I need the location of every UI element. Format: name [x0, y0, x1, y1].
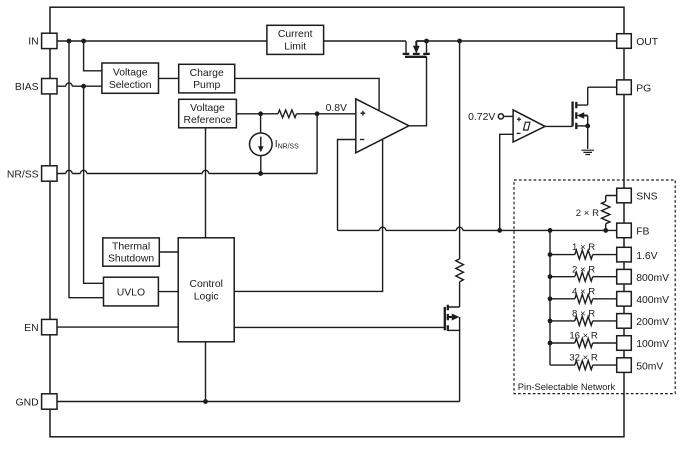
- wire 2xR to FB line: [605, 224, 607, 231]
- wire Voltage Reference output 0.8V node: [236, 113, 355, 115]
- svg-text:Reference: Reference: [184, 115, 232, 126]
- svg-text:FB: FB: [636, 227, 649, 238]
- pass transistor channel segments: [403, 53, 430, 55]
- svg-text:SNS: SNS: [636, 192, 657, 203]
- wire BIAS line with hop: [57, 83, 102, 86]
- svg-text:400mV: 400mV: [636, 295, 669, 306]
- junction on IN rail at x69: [67, 39, 72, 44]
- pin 200mV: [617, 314, 632, 329]
- pin 1.6V: [617, 247, 632, 262]
- junction on IN rail at x83.6: [81, 39, 86, 44]
- op-amp error amplifier: [356, 99, 409, 153]
- resistor 1xR ladder: [575, 250, 593, 259]
- block UVLO: [104, 277, 159, 306]
- svg-text:0.72V: 0.72V: [468, 112, 495, 123]
- resistor discharge path: [456, 259, 464, 282]
- label 0.8V: [326, 103, 347, 114]
- svg-text:8 × R: 8 × R: [572, 309, 595, 320]
- svg-text:2 × R: 2 × R: [572, 264, 595, 275]
- discharge transistor body arrow: [448, 314, 460, 321]
- junction FB comparator tap: [497, 228, 502, 233]
- wire ladder bus: [549, 230, 551, 365]
- wire SNS to 2xR resistor: [606, 196, 617, 202]
- block Charge Pump: [179, 64, 235, 93]
- label 2xR: [572, 264, 595, 275]
- wire ladder row 4 left: [550, 320, 575, 322]
- junction FB 2xR tap: [603, 228, 608, 233]
- resistor 2xR ladder: [575, 272, 593, 281]
- junction NR/SS at current source: [258, 171, 263, 176]
- junction 0.8V node right: [315, 111, 320, 116]
- svg-text:4 × R: 4 × R: [572, 286, 595, 297]
- svg-text:Current: Current: [278, 29, 313, 40]
- PG FET source stub: [576, 125, 587, 127]
- wire IN rail: [57, 40, 406, 42]
- wire EN line: [57, 326, 178, 328]
- wire Control Logic to error amp enable: [234, 140, 382, 291]
- dashed box pin-selectable network: [514, 180, 675, 394]
- svg-text:50mV: 50mV: [636, 361, 663, 372]
- current source I_NR/SS circle: [249, 133, 272, 156]
- svg-text:2 × R: 2 × R: [576, 208, 599, 219]
- resistor 2xR sense: [602, 201, 610, 223]
- svg-text:OUT: OUT: [636, 37, 659, 48]
- junction ladder bus row 4: [548, 319, 553, 324]
- label 800mV: [636, 273, 669, 284]
- svg-text:EN: EN: [24, 323, 38, 334]
- pin 400mV: [617, 292, 632, 307]
- svg-text:Shutdown: Shutdown: [108, 254, 154, 265]
- label 1xR: [572, 242, 595, 253]
- svg-text:Pin-Selectable Network: Pin-Selectable Network: [518, 381, 616, 392]
- label FB: [636, 227, 649, 238]
- pin GND: [42, 394, 57, 409]
- block Thermal Shutdown: [103, 238, 160, 266]
- ground symbol: [581, 150, 594, 154]
- pin PG: [617, 80, 632, 95]
- wire Control Logic to GND rail: [205, 342, 207, 402]
- junction FB ladder bus tap: [548, 228, 553, 233]
- wire OUT sense down to resistor: [459, 41, 461, 259]
- svg-text:Logic: Logic: [194, 291, 219, 302]
- resistor 8xR ladder: [575, 316, 593, 325]
- junction PG FET source: [585, 124, 590, 129]
- label 2 x R: [576, 208, 599, 219]
- svg-text:800mV: 800mV: [636, 273, 669, 284]
- wire OUT rail: [416, 40, 617, 42]
- junction OUT sense tap: [457, 39, 462, 44]
- junction pass FET drain on OUT rail: [424, 39, 429, 44]
- resistor 16xR ladder: [575, 339, 593, 348]
- resistor 4xR ladder: [575, 294, 593, 303]
- pin 50mV: [617, 358, 632, 373]
- label 50mV: [636, 361, 663, 372]
- junction on BIAS line: [81, 84, 86, 89]
- wire ladder row 6 right: [593, 364, 617, 366]
- svg-text:0.8V: 0.8V: [326, 103, 347, 114]
- wire FB line with hops: [338, 227, 617, 230]
- wire comparator inverting input: [500, 134, 514, 230]
- wire NR/SS line with hops: [57, 170, 317, 173]
- pin IN: [42, 33, 57, 48]
- block Voltage Reference: [179, 99, 237, 128]
- svg-text:Control: Control: [189, 279, 223, 290]
- PG FET drain stub: [576, 87, 587, 105]
- label PG: [636, 83, 651, 94]
- svg-text:INR/SS: INR/SS: [275, 139, 299, 150]
- label 0.72V: [468, 112, 495, 123]
- wire ladder row 5 left: [550, 342, 575, 344]
- wire comparator output to PG FET gate: [545, 125, 573, 127]
- pin OUT: [617, 34, 632, 49]
- pass transistor gate bar: [405, 56, 427, 58]
- label 200mV: [636, 317, 669, 328]
- wire IN to Voltage Selection: [84, 41, 102, 71]
- svg-text:1.6V: 1.6V: [636, 251, 657, 262]
- wire error amp output to pass FET gate: [409, 57, 427, 126]
- wire ladder row 5 right: [593, 342, 617, 344]
- wire ladder row 2 right: [593, 276, 617, 278]
- label IN: [28, 37, 38, 48]
- svg-text:PG: PG: [636, 83, 651, 94]
- pass transistor drain stub: [416, 41, 426, 53]
- wire ladder row 3 left: [550, 298, 575, 300]
- junction ladder bus row 3: [548, 296, 553, 301]
- label NR/SS: [7, 169, 39, 180]
- pass transistor body arrow: [413, 41, 420, 54]
- label 400mV: [636, 295, 669, 306]
- wire resistor to discharge FET drain: [448, 282, 460, 307]
- svg-text:Limit: Limit: [284, 42, 306, 53]
- svg-text:Charge: Charge: [190, 68, 224, 79]
- svg-text:Selection: Selection: [109, 80, 152, 91]
- svg-text:Voltage: Voltage: [113, 68, 148, 79]
- wire ladder row 2 left: [550, 276, 575, 278]
- label EN: [24, 323, 38, 334]
- junction 0.8V node left: [258, 111, 263, 116]
- wire ladder row 6 left: [550, 364, 575, 366]
- svg-text:UVLO: UVLO: [117, 287, 145, 298]
- label BIAS: [15, 82, 39, 93]
- pin FB: [617, 223, 632, 238]
- block Voltage Selection: [102, 63, 159, 93]
- wire FB to error amp inverting input: [338, 140, 356, 231]
- label 16xR: [569, 331, 598, 342]
- wire current source bottom: [260, 156, 262, 174]
- wire ladder row 3 right: [593, 298, 617, 300]
- terminal 0.72V: [498, 114, 503, 119]
- wire BIAS to UVLO: [84, 86, 104, 283]
- junction ladder bus row 5: [548, 341, 553, 346]
- resistor on 0.8V reference line: [278, 110, 297, 118]
- svg-text:200mV: 200mV: [636, 317, 669, 328]
- label 1.6V: [636, 251, 657, 262]
- svg-text:32 × R: 32 × R: [569, 353, 598, 364]
- PG FET body arrow: [577, 112, 588, 119]
- wire PG pull-down to ground: [587, 126, 589, 149]
- label SNS: [636, 192, 657, 203]
- svg-text:NR/SS: NR/SS: [7, 169, 39, 180]
- svg-text:1 × R: 1 × R: [572, 242, 595, 253]
- junction GND rail: [203, 399, 208, 404]
- label 32xR: [569, 353, 598, 364]
- wire current source top: [260, 114, 262, 133]
- wire UVLO to Control Logic: [158, 291, 178, 293]
- wire IN to UVLO: [69, 41, 104, 298]
- block Current Limit: [267, 25, 324, 54]
- wire PG line: [588, 86, 617, 88]
- current source arrow: [258, 137, 264, 153]
- wire ladder row 1 left: [550, 254, 575, 256]
- svg-text:GND: GND: [16, 397, 39, 408]
- svg-text:16 × R: 16 × R: [569, 331, 598, 342]
- wire PG FET body to source: [587, 116, 589, 126]
- wire GND rail: [57, 401, 460, 403]
- pin 800mV: [617, 269, 632, 284]
- discharge transistor channel segments: [447, 305, 449, 331]
- comparator PG: [513, 110, 545, 142]
- block Control Logic: [178, 238, 234, 342]
- pin BIAS: [42, 79, 57, 94]
- svg-text:Voltage: Voltage: [190, 103, 225, 114]
- svg-text:BIAS: BIAS: [15, 82, 39, 93]
- wire ladder row 1 right: [593, 254, 617, 256]
- wire Voltage Reference to Control Logic: [205, 128, 207, 238]
- wire ladder row 4 right: [593, 320, 617, 322]
- label 8xR: [572, 309, 595, 320]
- discharge transistor gate bar: [444, 307, 446, 330]
- discharge transistor source stub: [448, 329, 460, 331]
- svg-text:Thermal: Thermal: [112, 242, 150, 253]
- label OUT: [636, 37, 659, 48]
- svg-text:Pump: Pump: [193, 80, 220, 91]
- pass transistor source stub: [405, 41, 407, 53]
- label I_NR/SS: [275, 139, 299, 150]
- wire discharge FET source to GND: [459, 317, 461, 402]
- wire Charge Pump output to error amp top: [235, 78, 379, 111]
- label 4xR: [572, 286, 595, 297]
- resistor 32xR ladder: [575, 361, 593, 370]
- pin NR/SS: [42, 166, 57, 181]
- junction ladder bus row 2: [548, 274, 553, 279]
- svg-text:IN: IN: [28, 37, 38, 48]
- PG FET gate bar: [571, 102, 573, 127]
- pin 100mV: [617, 336, 632, 351]
- label GND: [16, 397, 39, 408]
- PG FET channel segments: [575, 102, 577, 129]
- wire 0.8V node down to NR/SS: [316, 114, 318, 174]
- junction ladder bus row 1: [548, 252, 553, 257]
- pin SNS: [617, 188, 632, 203]
- pin EN: [42, 319, 57, 334]
- wire Thermal Shutdown to Control Logic: [159, 251, 178, 253]
- svg-text:100mV: 100mV: [636, 339, 669, 350]
- wire 0.72V to comparator: [504, 115, 514, 117]
- label 100mV: [636, 339, 669, 350]
- wire Control Logic to discharge FET gate: [234, 326, 444, 328]
- label Pin-Selectable Network: [518, 381, 616, 392]
- wire Voltage Selection to Charge Pump: [159, 77, 179, 79]
